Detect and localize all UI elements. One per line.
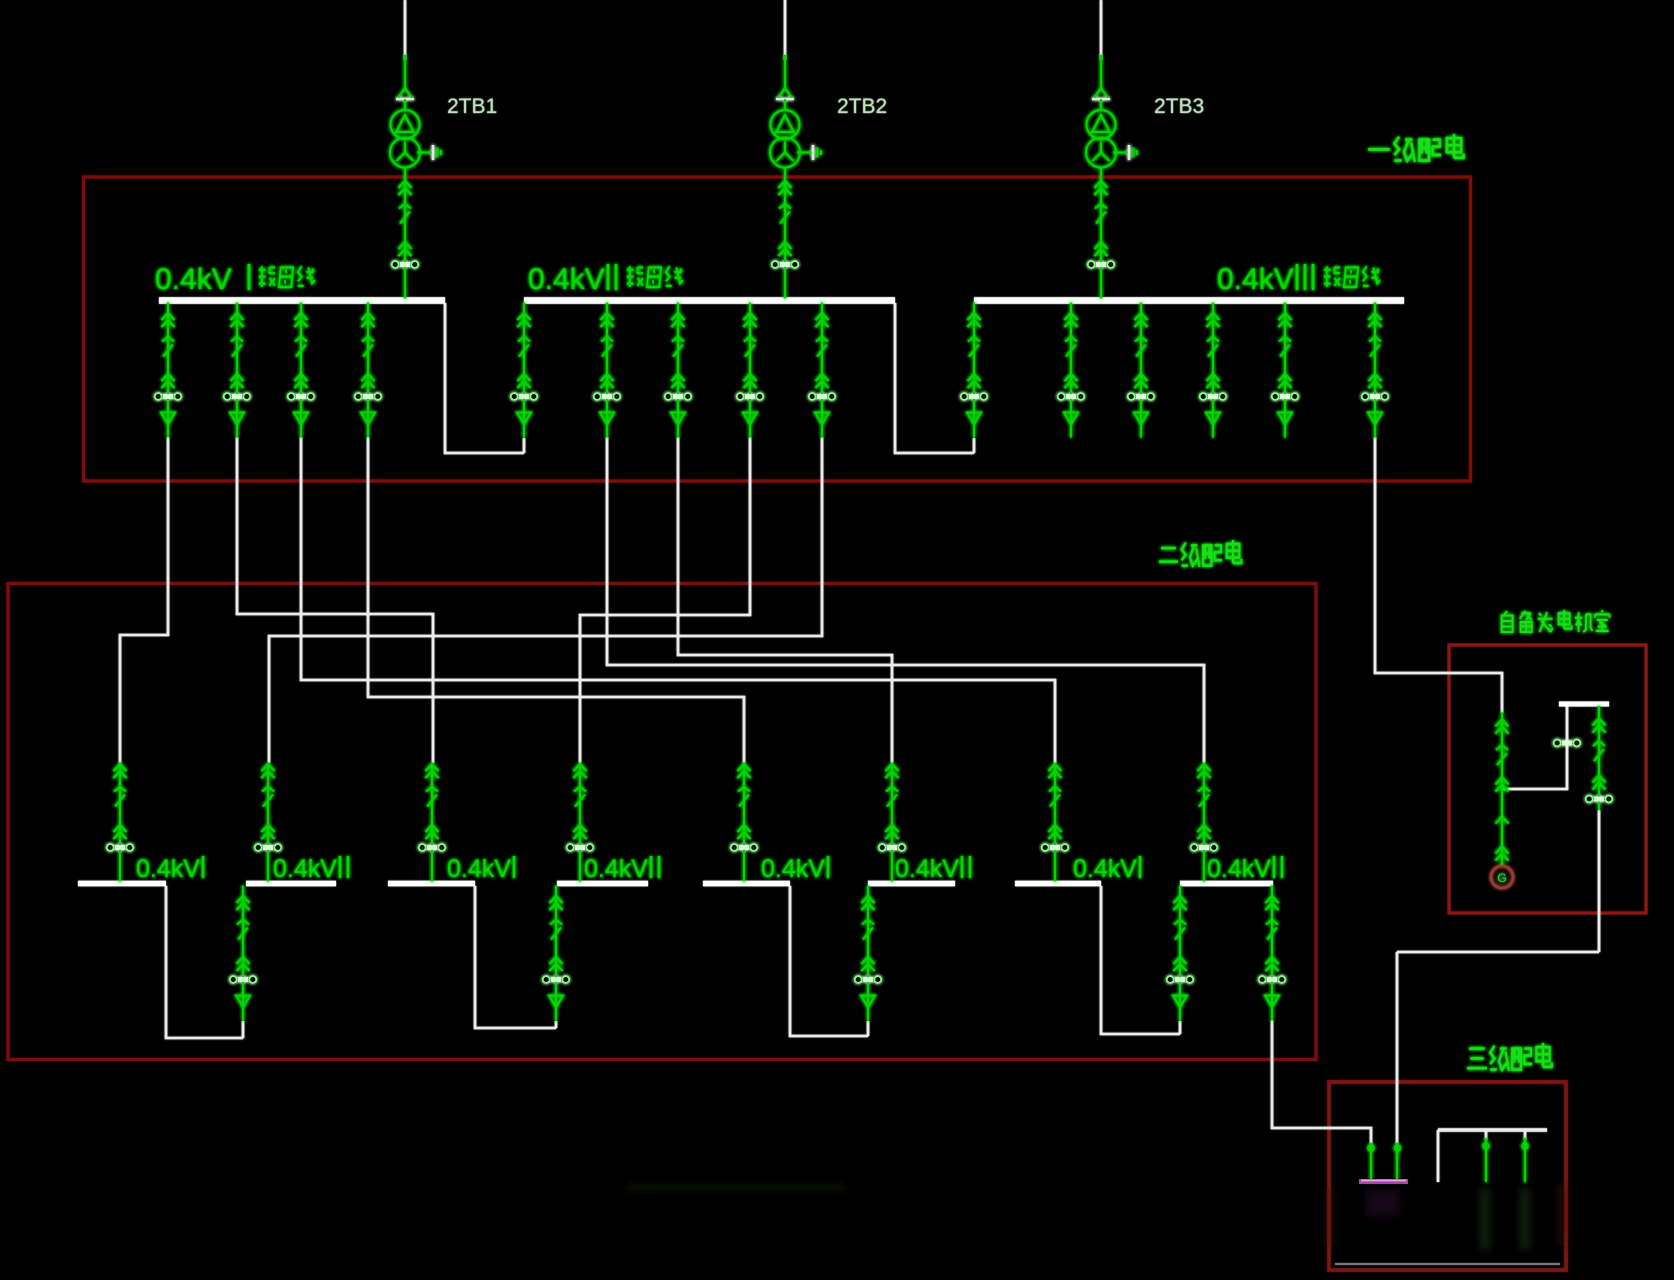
svg-text:0.4kV: 0.4kV xyxy=(273,855,337,883)
svg-text:2TB2: 2TB2 xyxy=(837,95,887,118)
svg-text:0.4kV: 0.4kV xyxy=(761,855,825,883)
svg-text:0.4kV: 0.4kV xyxy=(447,855,511,883)
svg-text:0.4kV: 0.4kV xyxy=(528,263,605,296)
svg-text:2TB1: 2TB1 xyxy=(447,95,497,118)
svg-text:G: G xyxy=(1497,871,1506,885)
svg-text:0.4kV: 0.4kV xyxy=(155,263,232,296)
svg-text:0.4kV: 0.4kV xyxy=(584,855,648,883)
svg-text:0.4kV: 0.4kV xyxy=(1073,855,1137,883)
svg-text:0.4kV: 0.4kV xyxy=(895,855,959,883)
svg-text:0.4kV: 0.4kV xyxy=(136,855,200,883)
svg-text:0.4kV: 0.4kV xyxy=(1207,855,1271,883)
svg-text:2TB3: 2TB3 xyxy=(1154,95,1204,118)
svg-text:0.4kV: 0.4kV xyxy=(1217,263,1294,296)
